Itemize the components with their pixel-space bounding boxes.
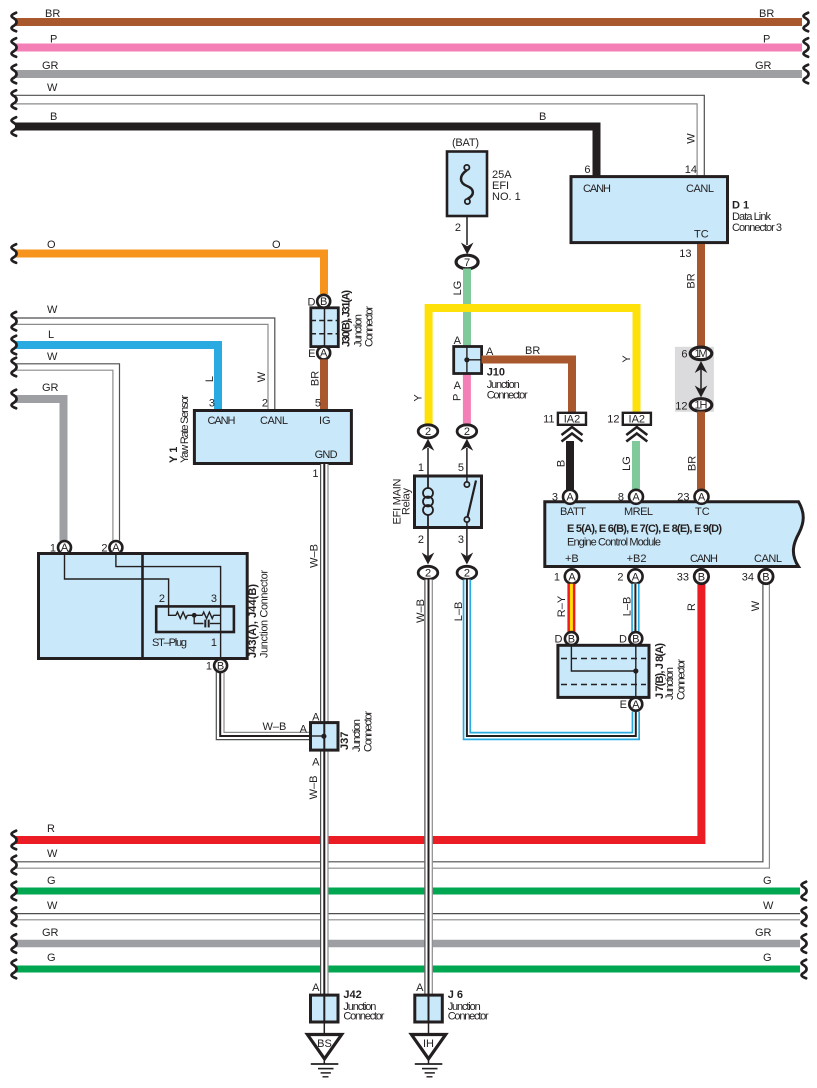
wire GR bus (top) <box>11 60 808 83</box>
svg-text:3: 3 <box>211 593 217 605</box>
ground IH <box>411 1022 445 1077</box>
svg-text:CANL: CANL <box>754 553 782 565</box>
svg-text:2: 2 <box>262 398 268 410</box>
connector IA2 pin 12 <box>607 413 651 442</box>
fuse element symbol <box>461 170 473 199</box>
wire BR (J30 A to Y1 IG pin 5) <box>309 359 324 410</box>
wire G bus 2 (bottom) <box>11 952 806 978</box>
svg-text:13: 13 <box>679 248 691 260</box>
svg-text:B: B <box>217 660 224 672</box>
svg-text:B: B <box>320 296 327 308</box>
svg-text:A: A <box>566 492 574 504</box>
connector 2 (Y wire) <box>418 425 438 476</box>
svg-text:6: 6 <box>584 164 590 176</box>
svg-text:1: 1 <box>211 637 217 649</box>
svg-text:GR: GR <box>42 382 59 394</box>
wire B (IA2 11 to ECM BATT pin 3) <box>556 441 571 490</box>
junction dot <box>464 357 469 362</box>
connector 1M / 1H <box>675 347 714 413</box>
fuse 25A EFI NO.1 (BAT) <box>447 137 521 245</box>
wire L-B (relay 3 to J7 E pin A) <box>453 580 636 737</box>
svg-text:P: P <box>451 394 463 401</box>
svg-text:7: 7 <box>464 257 470 269</box>
svg-text:D: D <box>555 634 563 646</box>
svg-text:A: A <box>312 757 320 769</box>
wire P (J10 to relay) <box>451 374 467 426</box>
svg-text:3: 3 <box>458 534 464 546</box>
svg-text:BR: BR <box>525 345 540 357</box>
junction connector J6 <box>415 982 489 1023</box>
svg-text:2: 2 <box>455 222 461 234</box>
svg-text:B: B <box>632 633 639 645</box>
svg-text:BR: BR <box>687 456 699 471</box>
svg-text:A: A <box>312 982 320 994</box>
wire L-B (ECM +B2 to J7 pin D) <box>622 584 636 633</box>
connector IA2 pin 11 <box>543 413 586 442</box>
svg-text:Junction Connector: Junction Connector <box>259 570 271 658</box>
svg-text:A: A <box>300 724 308 736</box>
svg-text:D: D <box>619 634 627 646</box>
svg-text:IA2: IA2 <box>629 414 646 426</box>
junction connector J30(B), J31(A) <box>308 290 376 360</box>
Y1 Yaw Rate Sensor <box>168 395 351 480</box>
wire W bus (top, to D1 pin 14) <box>11 82 704 176</box>
svg-text:J37: J37 <box>339 732 351 750</box>
svg-text:A: A <box>568 571 576 583</box>
svg-text:NO. 1: NO. 1 <box>492 191 521 203</box>
BS triangle <box>307 1035 341 1059</box>
svg-text:J10: J10 <box>487 366 505 378</box>
pin 1 B <box>214 659 227 672</box>
svg-text:GR: GR <box>755 60 772 72</box>
svg-text:O: O <box>47 239 56 251</box>
svg-text:GR: GR <box>42 927 59 939</box>
svg-text:12: 12 <box>675 401 687 413</box>
junction connector J42 <box>311 982 385 1023</box>
svg-text:J43(A), J44(B): J43(A), J44(B) <box>247 584 259 658</box>
pin 2 A (+B2) <box>628 569 642 583</box>
wire W bus (bottom) <box>11 900 806 926</box>
resistor (ST-Plug right) <box>202 612 213 618</box>
pin 33 B (CANH) <box>694 569 708 583</box>
svg-text:IH: IH <box>423 1038 434 1050</box>
svg-text:Connector: Connector <box>343 1011 384 1023</box>
earth symbol <box>415 1063 443 1065</box>
svg-text:L–B: L–B <box>453 602 465 622</box>
svg-text:Relay: Relay <box>401 488 413 516</box>
wire GR bus (to J43 pin 1) <box>11 382 63 541</box>
svg-text:A: A <box>320 348 328 360</box>
svg-text:W: W <box>763 900 774 912</box>
svg-text:A: A <box>632 699 640 711</box>
svg-text:TC: TC <box>694 229 709 241</box>
svg-text:(BAT): (BAT) <box>452 137 479 149</box>
pin 34 B (CANL) <box>759 569 773 583</box>
svg-text:A: A <box>698 492 706 504</box>
svg-text:E 5(A), E 6(B), E 7(C), E 8(E): E 5(A), E 6(B), E 7(C), E 8(E), E 9(D) <box>567 523 722 535</box>
junction connector J43(A), J44(B) with ST-Plug <box>39 541 271 673</box>
svg-text:34: 34 <box>742 572 754 584</box>
wire GR bus (bottom) <box>11 927 806 953</box>
svg-text:2: 2 <box>425 426 431 438</box>
svg-text:J 6: J 6 <box>448 989 463 1001</box>
wire W bus (to Y1 CANL pin 2) <box>11 304 274 410</box>
svg-text:1: 1 <box>312 468 318 480</box>
junction dot <box>633 668 638 673</box>
svg-text:14: 14 <box>685 164 697 176</box>
svg-text:G: G <box>47 952 56 964</box>
svg-text:11: 11 <box>543 414 554 426</box>
svg-text:J30(B), J31(A): J30(B), J31(A) <box>341 290 353 347</box>
svg-text:23: 23 <box>677 492 689 504</box>
svg-text:1H: 1H <box>695 399 708 411</box>
relay coil <box>427 476 429 489</box>
svg-text:A: A <box>632 492 640 504</box>
svg-text:A: A <box>454 335 462 347</box>
pin 8 A (MREL) <box>629 490 643 504</box>
pin E A <box>629 698 642 711</box>
capacitor (ST-Plug) <box>204 620 206 628</box>
svg-text:W: W <box>47 82 58 94</box>
svg-text:+B2: +B2 <box>627 553 647 565</box>
svg-text:W: W <box>750 600 762 611</box>
svg-text:W: W <box>47 900 58 912</box>
svg-text:D 1: D 1 <box>732 200 749 212</box>
svg-text:R: R <box>47 823 55 835</box>
D1 Data Link Connector 3 <box>571 164 782 260</box>
svg-text:1M: 1M <box>695 348 708 360</box>
svg-text:J42: J42 <box>343 989 361 1001</box>
svg-text:W: W <box>256 371 268 382</box>
svg-text:5: 5 <box>315 398 321 410</box>
svg-text:Connector: Connector <box>364 306 376 347</box>
svg-text:L: L <box>48 329 54 341</box>
connector 2 (relay pin 3) <box>457 566 477 579</box>
pin 12 1H <box>690 399 712 412</box>
svg-text:MREL: MREL <box>624 506 653 518</box>
svg-text:CANH: CANH <box>583 183 611 195</box>
svg-text:CANH: CANH <box>208 415 236 427</box>
svg-text:6: 6 <box>681 349 687 361</box>
wire BR bus (top) <box>11 8 808 31</box>
svg-text:W: W <box>47 848 58 860</box>
wire W-B (J43 B to J37) <box>216 672 318 740</box>
svg-text:GR: GR <box>755 927 772 939</box>
svg-text:LG: LG <box>621 456 633 471</box>
pin D B (left) <box>565 632 578 645</box>
svg-text:B: B <box>50 111 57 123</box>
svg-text:2: 2 <box>425 568 431 580</box>
svg-text:1: 1 <box>554 572 560 584</box>
svg-text:Y: Y <box>621 355 633 363</box>
ECM E5-E9 Engine Control Module <box>545 490 803 584</box>
svg-text:5: 5 <box>458 462 464 474</box>
svg-text:G: G <box>763 952 772 964</box>
wire Y (yellow, J10 area to IA2 12) <box>412 308 636 425</box>
wire R bus (to ECM CANH pin 33) <box>11 584 701 849</box>
svg-text:E: E <box>308 348 315 360</box>
svg-text:B: B <box>762 571 769 583</box>
svg-text:CANL: CANL <box>260 415 288 427</box>
svg-text:BR: BR <box>309 371 321 386</box>
wire LG (fuse 7 to J10) <box>452 269 467 348</box>
svg-text:BR: BR <box>686 273 698 288</box>
junction connector J7(B), J8(A) <box>555 632 688 711</box>
wire O bus (to J30 pin B) <box>11 239 324 294</box>
wire G bus 1 (bottom) <box>11 875 806 900</box>
svg-text:2: 2 <box>418 534 424 546</box>
svg-text:A: A <box>632 571 640 583</box>
svg-text:Engine Control Module: Engine Control Module <box>567 537 661 549</box>
svg-text:Connector: Connector <box>676 659 688 700</box>
svg-text:P: P <box>763 34 770 46</box>
svg-text:GR: GR <box>42 60 59 72</box>
svg-text:2: 2 <box>464 426 470 438</box>
svg-text:R–Y: R–Y <box>556 595 568 617</box>
svg-text:B: B <box>539 111 546 123</box>
svg-text:2: 2 <box>464 568 470 580</box>
wire L bus (to Y1 CANH pin 3) <box>11 329 218 410</box>
svg-text:Y: Y <box>412 394 424 402</box>
svg-text:W–B: W–B <box>308 776 320 800</box>
pin D B <box>317 295 330 308</box>
svg-text:W: W <box>47 351 58 363</box>
junction dot <box>192 613 197 618</box>
svg-text:GND: GND <box>315 449 338 461</box>
connector 2 (P wire) <box>457 425 477 476</box>
svg-text:W: W <box>686 133 698 144</box>
svg-text:BR: BR <box>45 8 60 20</box>
IH triangle <box>411 1035 445 1059</box>
svg-text:BS: BS <box>317 1038 332 1050</box>
pin 6 1M <box>690 347 712 360</box>
svg-text:IG: IG <box>319 415 331 427</box>
junction dot <box>321 734 326 739</box>
relay switch contacts <box>466 476 468 482</box>
svg-text:G: G <box>763 875 772 887</box>
pin 1 A <box>58 541 71 554</box>
svg-text:W–B: W–B <box>415 599 427 623</box>
svg-text:Yaw Rate Sensor: Yaw Rate Sensor <box>179 395 191 463</box>
svg-text:IA2: IA2 <box>564 414 581 426</box>
svg-text:B: B <box>556 460 568 467</box>
svg-text:B: B <box>568 633 575 645</box>
svg-text:Connector: Connector <box>487 390 528 402</box>
svg-text:12: 12 <box>607 414 619 426</box>
pin 1 A (+B) <box>565 569 579 583</box>
wire W-B (relay 2 to J6, vertical) <box>415 580 433 996</box>
svg-text:L: L <box>204 376 216 382</box>
wire LG (IA2 12 to ECM MREL pin 8) <box>621 441 636 490</box>
svg-text:E: E <box>620 699 627 711</box>
svg-text:A: A <box>416 982 424 994</box>
svg-text:G: G <box>47 875 56 887</box>
svg-text:R: R <box>686 603 698 611</box>
junction connector J37 <box>311 711 375 769</box>
svg-text:A: A <box>454 380 462 392</box>
wire BR (D1 TC to 1M) <box>686 244 702 348</box>
svg-text:TC: TC <box>695 506 710 518</box>
svg-text:Junction: Junction <box>351 719 363 752</box>
wire W-B (Y1 GND to J42, vertical) <box>308 464 328 995</box>
wire W bus (to ECM CANL pin 34) <box>11 583 769 874</box>
svg-text:CANH: CANH <box>690 553 718 565</box>
svg-text:BR: BR <box>759 8 774 20</box>
svg-text:P: P <box>50 34 57 46</box>
EFI MAIN Relay <box>392 462 482 565</box>
svg-text:33: 33 <box>677 572 689 584</box>
svg-text:LG: LG <box>452 281 464 296</box>
resistor (ST-Plug left) <box>176 612 187 618</box>
svg-text:Connector 3: Connector 3 <box>732 222 782 234</box>
svg-text:W–B: W–B <box>309 544 321 568</box>
svg-text:W: W <box>47 304 58 316</box>
wire BR (J10 to IA2 11) <box>482 345 572 413</box>
connector 7 (arrow + oval) <box>456 243 478 270</box>
svg-text:3: 3 <box>209 398 215 410</box>
svg-text:Connector: Connector <box>363 711 375 752</box>
wire P bus (top) <box>11 34 808 57</box>
svg-text:3: 3 <box>552 492 558 504</box>
svg-text:BATT: BATT <box>560 506 586 518</box>
svg-text:L–B: L–B <box>622 597 634 617</box>
svg-text:W–B: W–B <box>263 721 287 733</box>
pin 23 A (TC) <box>695 490 709 504</box>
svg-text:8: 8 <box>618 492 624 504</box>
pin D B (right) <box>629 632 642 645</box>
ground BS <box>307 1022 341 1077</box>
earth symbol <box>311 1063 339 1065</box>
svg-text:1: 1 <box>206 661 212 673</box>
wire BR (1H to ECM TC pin 23) <box>687 412 702 491</box>
pin 3 A (BATT) <box>563 490 577 504</box>
pin E A <box>317 346 330 359</box>
wire R-Y (ECM +B to J7 pin D) <box>556 584 571 633</box>
svg-text:2: 2 <box>617 572 623 584</box>
svg-text:+B: +B <box>565 553 579 565</box>
svg-text:ST–Plug: ST–Plug <box>152 637 187 649</box>
svg-text:Connector: Connector <box>448 1011 489 1023</box>
pin 2 A <box>109 541 122 554</box>
svg-text:CANL: CANL <box>686 183 714 195</box>
svg-text:Junction: Junction <box>664 667 676 700</box>
svg-text:2: 2 <box>159 593 165 605</box>
svg-text:B: B <box>698 571 705 583</box>
wire W bus 2 (to J43 pin 2) <box>11 351 119 541</box>
svg-text:O: O <box>272 239 281 251</box>
svg-text:1: 1 <box>418 462 424 474</box>
junction connector J10 <box>454 335 528 402</box>
connector 2 (relay pin 2) <box>418 566 438 579</box>
wire B bus (to D1 pin 6) <box>11 111 596 176</box>
